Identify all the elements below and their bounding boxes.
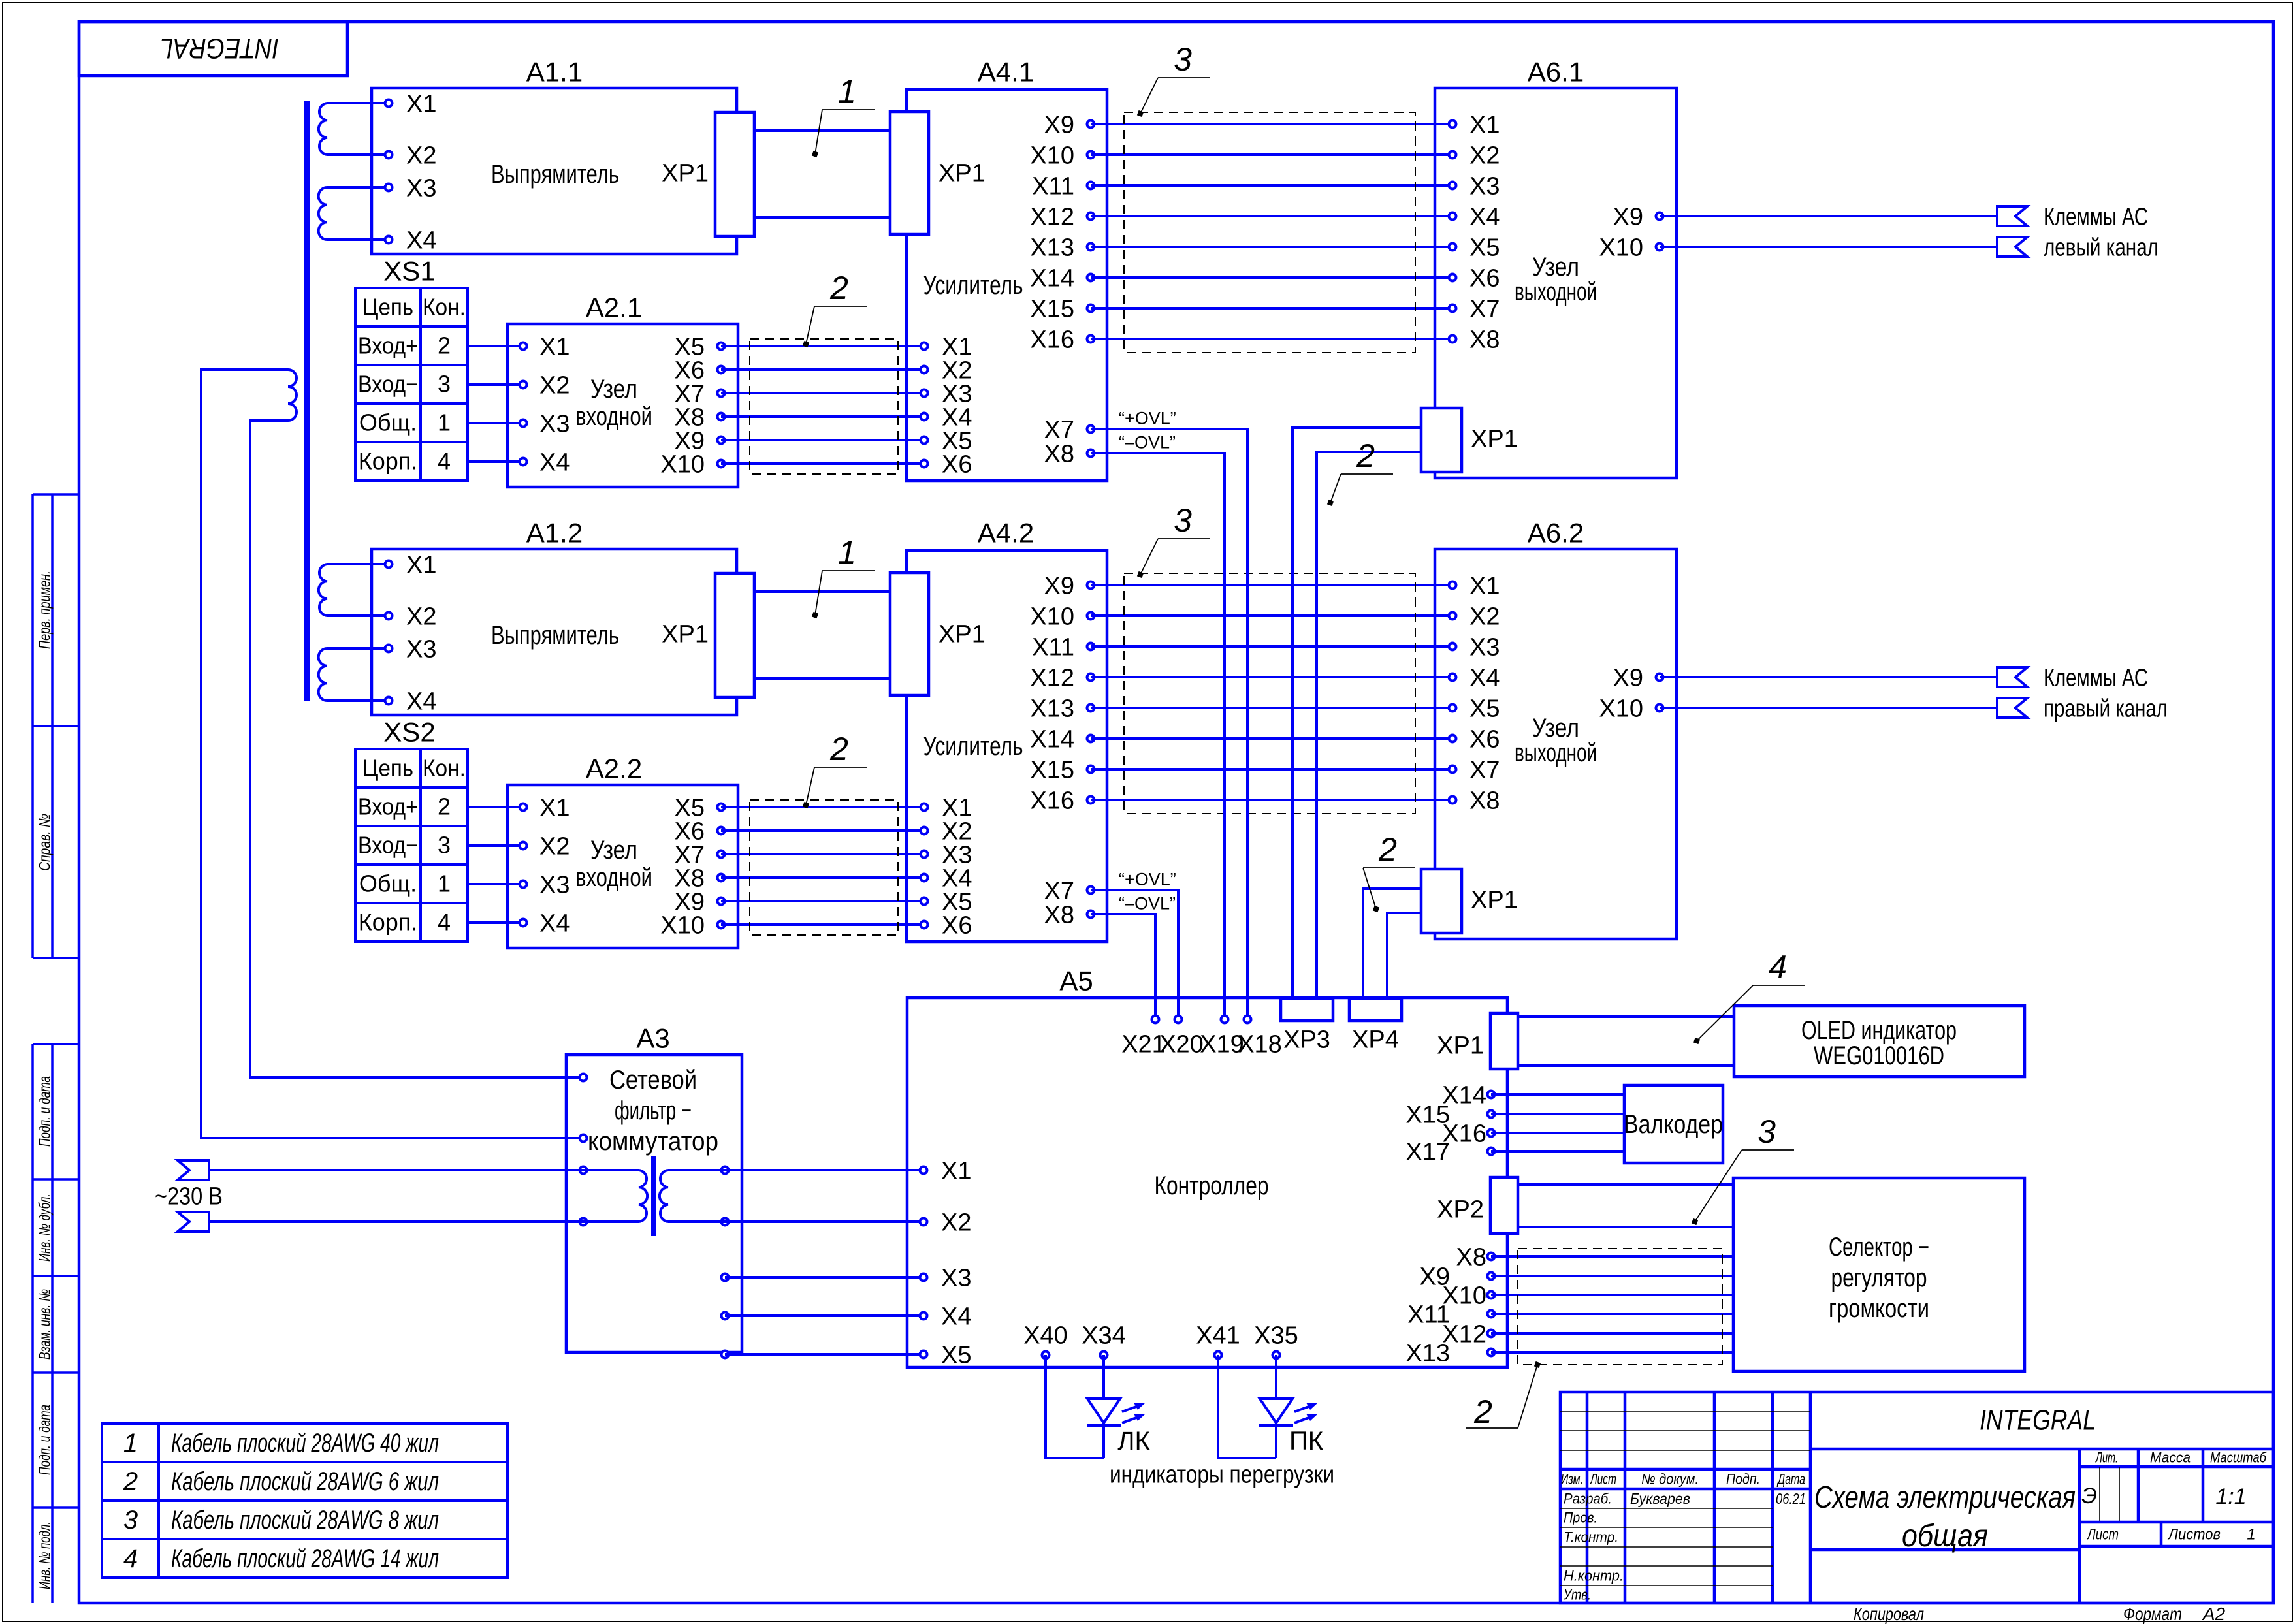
- pin X4 of A2.2: [520, 910, 570, 937]
- svg-text:индикаторы перегрузки: индикаторы перегрузки: [1110, 1461, 1334, 1488]
- wire: [327, 614, 389, 617]
- svg-text:X1: X1: [1469, 111, 1500, 138]
- pin X8 of A6.2: [1449, 787, 1500, 814]
- svg-text:2: 2: [1356, 438, 1375, 474]
- wire: [327, 563, 389, 565]
- wire A4.1 X7 (+OVL) to A5 X18: [1091, 429, 1247, 1019]
- wire XP1-XP1 top: [754, 590, 890, 593]
- wire A4 to A6: [1091, 307, 1452, 310]
- connector XP1 of A6.1: [1421, 408, 1518, 472]
- svg-text:Листов: Листов: [2167, 1525, 2221, 1543]
- callout 3 (channel 1): [1137, 41, 1210, 117]
- svg-text:A6.1: A6.1: [1528, 57, 1584, 88]
- svg-text:X5: X5: [1469, 695, 1500, 722]
- block A4.2 Усилитель: [907, 518, 1107, 942]
- title stamp box INTEGRAL (rotated 180): [79, 22, 347, 76]
- svg-text:A5: A5: [1059, 966, 1093, 996]
- wire A6 X9 to terminals: [1660, 215, 1997, 217]
- LED ПК overload indicator: [1218, 1355, 1318, 1458]
- svg-text:X4: X4: [406, 227, 436, 254]
- svg-text:A3: A3: [636, 1023, 669, 1054]
- svg-text:Клеммы АС: Клеммы АС: [2044, 203, 2148, 231]
- pin 2 of A3 (left): [580, 1135, 587, 1142]
- wire A4 to A6: [1091, 246, 1452, 248]
- connector XP1 of A5: [1437, 1013, 1518, 1069]
- svg-text:Усилитель: Усилитель: [923, 732, 1023, 761]
- svg-text:A4.1: A4.1: [978, 57, 1034, 88]
- svg-text:4: 4: [438, 909, 451, 936]
- wire XP1-XP1 bottom: [754, 216, 890, 219]
- svg-text:1: 1: [438, 870, 451, 897]
- wire A5 XP2 to selector (b): [1518, 1226, 1733, 1228]
- svg-text:XP1: XP1: [662, 159, 709, 187]
- svg-text:Подп. и дата: Подп. и дата: [36, 1076, 54, 1147]
- svg-text:XP1: XP1: [1471, 886, 1518, 914]
- wire A2 to A4: [721, 923, 924, 926]
- svg-text:X2: X2: [1469, 142, 1500, 169]
- svg-text:2: 2: [829, 731, 848, 767]
- svg-text:Схема электрическая: Схема электрическая: [1814, 1480, 2076, 1515]
- svg-text:Выпрямитель: Выпрямитель: [491, 621, 619, 650]
- svg-text:X15: X15: [1030, 295, 1074, 323]
- svg-text:X5: X5: [1469, 234, 1500, 261]
- svg-text:X3: X3: [406, 635, 436, 663]
- svg-text:X2: X2: [1469, 603, 1500, 630]
- pin X9 of A6.1: [1613, 203, 1663, 231]
- transformer TV1 primary winding: [288, 370, 297, 421]
- svg-text:Изм.: Изм.: [1561, 1471, 1583, 1488]
- pin 1 of A3 (left): [580, 1074, 587, 1081]
- wire A6.1 XP1 to A5 XP3 (a): [1292, 428, 1421, 998]
- title block Лист Листов: [2086, 1525, 2255, 1543]
- margin graph boxes upper (Перв. примен. / Справ. №): [33, 494, 79, 958]
- pin of A3 (right): [722, 1351, 729, 1358]
- wire primary bottom to A3 pin: [250, 421, 583, 1077]
- svg-text:X7: X7: [1044, 877, 1074, 904]
- svg-text:Формат: Формат: [2123, 1604, 2182, 1624]
- svg-text:Подп.: Подп.: [1726, 1471, 1760, 1488]
- svg-text:“–OVL”: “–OVL”: [1119, 433, 1176, 453]
- svg-text:Общ.: Общ.: [359, 409, 417, 436]
- svg-text:3: 3: [438, 371, 451, 398]
- connector XS1 table: [355, 256, 468, 481]
- block A5 Контроллер: [907, 966, 1507, 1367]
- svg-text:X1: X1: [539, 794, 570, 821]
- wire A2 to A4: [721, 900, 924, 902]
- svg-text:1: 1: [2247, 1525, 2255, 1543]
- wire A5 to encoder: [1491, 1150, 1624, 1153]
- svg-text:X3: X3: [539, 410, 570, 438]
- pin X1 of A2.1: [520, 333, 570, 360]
- svg-text:X2: X2: [941, 1209, 971, 1236]
- wire XS to A2: [468, 345, 523, 347]
- pin X7 of A4.2: [1044, 877, 1095, 904]
- svg-text:X11: X11: [1032, 633, 1074, 661]
- pin X12 of A5: [1442, 1320, 1494, 1348]
- svg-text:Разраб.: Разраб.: [1564, 1491, 1612, 1507]
- svg-text:X4: X4: [1469, 664, 1500, 692]
- pin X1 of A4.1: [921, 333, 972, 360]
- svg-text:Подп. и дата: Подп. и дата: [36, 1405, 54, 1475]
- pin X2 of A4.2: [921, 818, 972, 845]
- svg-text:Перв. примен.: Перв. примен.: [36, 571, 54, 649]
- svg-text:X13: X13: [1030, 234, 1074, 261]
- svg-text:XP4: XP4: [1352, 1026, 1399, 1053]
- svg-text:2: 2: [438, 332, 451, 359]
- pin X8 of A6.1: [1449, 326, 1500, 353]
- pin X14 of A4.1: [1030, 264, 1094, 292]
- svg-text:“+OVL”: “+OVL”: [1119, 870, 1176, 889]
- svg-text:X2: X2: [539, 833, 570, 860]
- svg-text:входной: входной: [575, 402, 652, 431]
- pin X11 of A4.1: [1032, 172, 1094, 200]
- pin X5 of A4.2: [921, 888, 972, 915]
- callout 1 (channel 2): [812, 534, 875, 618]
- pin X5 of A2.1: [675, 333, 725, 360]
- footer Формат А2: [2123, 1604, 2226, 1624]
- svg-text:2: 2: [1473, 1393, 1492, 1430]
- wire A4 to A6: [1091, 645, 1452, 648]
- svg-text:X1: X1: [406, 551, 436, 579]
- svg-text:X14: X14: [1030, 264, 1074, 292]
- svg-text:Инв. № дубл.: Инв. № дубл.: [36, 1194, 54, 1262]
- svg-text:громкости: громкости: [1829, 1294, 1929, 1323]
- svg-text:X1: X1: [539, 333, 570, 360]
- wire: [327, 699, 389, 702]
- title block Лит Масса Масштаб: [2081, 1450, 2267, 1509]
- wire primary top to A3 pin: [201, 370, 583, 1138]
- svg-text:Корп.: Корп.: [359, 909, 418, 936]
- wire A2 to A4: [721, 853, 924, 855]
- svg-text:X16: X16: [1030, 787, 1074, 814]
- wire A5 to encoder: [1491, 1093, 1624, 1096]
- pin X15 of A5: [1405, 1101, 1494, 1128]
- wire XS to A2: [468, 844, 523, 847]
- wire A5 to selector: [1491, 1332, 1733, 1335]
- pin X2 of A5: [920, 1209, 972, 1236]
- svg-text:X9: X9: [1044, 111, 1074, 138]
- transformer TV1 secondary winding 2b: [319, 648, 327, 701]
- svg-text:Инв. № подл.: Инв. № подл.: [36, 1521, 54, 1589]
- svg-text:X3: X3: [1469, 172, 1500, 200]
- callout 2 (channel 2): [803, 731, 867, 808]
- block A2.2 Узел входной: [507, 754, 738, 948]
- pin X2 of A2.2: [520, 833, 570, 860]
- svg-text:X13: X13: [1030, 695, 1074, 722]
- svg-text:X7: X7: [1044, 416, 1074, 443]
- svg-text:3: 3: [438, 832, 451, 859]
- pin X9 of A5: [1420, 1263, 1495, 1290]
- wire A4.1 X8 (-OVL) to A5 X19: [1091, 453, 1225, 1019]
- wire XS to A2: [468, 921, 523, 924]
- wire A4 to A6: [1091, 584, 1452, 586]
- pin X40 of A5: [1023, 1322, 1068, 1358]
- pin X12 of A4.1: [1030, 203, 1094, 231]
- pin X3 of A2.2: [520, 871, 570, 899]
- svg-text:XP2: XP2: [1437, 1196, 1484, 1223]
- pin X4 of A1.2: [385, 688, 437, 715]
- wire T2 primary bottom: [575, 1220, 639, 1223]
- pin X7 of A2.1: [675, 380, 725, 407]
- svg-text:№ докум.: № докум.: [1641, 1471, 1699, 1488]
- pin X10 of A6.2: [1599, 695, 1663, 722]
- pin X5 of A6.1: [1449, 234, 1500, 261]
- pin X19 of A5: [1200, 1016, 1244, 1059]
- wire XS to A2: [468, 460, 523, 463]
- pin X4 of A1.1: [385, 227, 437, 254]
- svg-text:X40: X40: [1023, 1322, 1068, 1349]
- transformer T2 core: [651, 1156, 656, 1236]
- wire A2 to A4: [721, 829, 924, 832]
- callout 1 (channel 1): [812, 73, 875, 157]
- block A1.2 Выпрямитель: [372, 518, 737, 715]
- pin X7 of A6.1: [1449, 295, 1500, 323]
- block A3 Сетевой фильтр - коммутатор: [566, 1023, 742, 1352]
- svg-text:WEG010016D: WEG010016D: [1814, 1042, 1944, 1070]
- cable 3 dashed outline (channel 2): [1124, 573, 1415, 814]
- svg-text:Дата: Дата: [1776, 1471, 1805, 1488]
- svg-text:Лист: Лист: [1590, 1471, 1616, 1488]
- svg-text:Копировал: Копировал: [1854, 1604, 1924, 1624]
- svg-text:X10: X10: [1599, 234, 1643, 261]
- svg-text:X4: X4: [539, 449, 570, 476]
- svg-text:X6: X6: [1469, 264, 1500, 292]
- svg-text:Масштаб: Масштаб: [2210, 1450, 2267, 1466]
- svg-text:Утв.: Утв.: [1563, 1587, 1591, 1603]
- svg-text:2: 2: [123, 1467, 138, 1496]
- svg-text:X7: X7: [1469, 756, 1500, 784]
- svg-text:Вход+: Вход+: [358, 793, 418, 820]
- connector XP3 of A5: [1281, 998, 1333, 1053]
- pin 3 of A3 (left): [580, 1167, 587, 1174]
- svg-text:Взам. инв. №: Взам. инв. №: [36, 1289, 54, 1360]
- svg-text:X8: X8: [1044, 440, 1074, 468]
- svg-text:Лит.: Лит.: [2095, 1450, 2118, 1466]
- pin X16 of A4.1: [1030, 326, 1094, 353]
- wire A2 to A4: [721, 368, 924, 371]
- pin X20 of A5: [1159, 1016, 1204, 1059]
- connector XP2 of A5: [1437, 1177, 1518, 1234]
- pin X3 of A6.2: [1449, 633, 1500, 661]
- pin X41 of A5: [1196, 1322, 1240, 1358]
- wire 230V neutral to A3: [209, 1220, 583, 1223]
- wire A6.2 XP1 to A5 XP4 (a): [1363, 889, 1421, 998]
- cable 3 dashed outline (channel 1): [1124, 112, 1415, 353]
- svg-text:Цепь: Цепь: [362, 294, 413, 321]
- pin X9 of A4.1: [1044, 111, 1095, 138]
- svg-text:X20: X20: [1159, 1030, 1204, 1058]
- svg-text:X10: X10: [1599, 695, 1643, 722]
- svg-text:A1.2: A1.2: [526, 518, 583, 549]
- power input connector ~230V (upper): [178, 1160, 209, 1180]
- svg-text:“+OVL”: “+OVL”: [1119, 409, 1176, 428]
- pin X5 of A4.1: [921, 427, 972, 454]
- pin X1 of A5: [920, 1157, 972, 1185]
- svg-text:входной: входной: [575, 863, 652, 892]
- svg-text:XP1: XP1: [939, 620, 986, 648]
- wire A5 XP1 to OLED (a): [1518, 1015, 1734, 1018]
- connector XP1 of A1.1: [662, 112, 754, 236]
- pin X10 of A4.1: [1030, 142, 1094, 169]
- svg-text:X6: X6: [942, 912, 972, 939]
- pin X18 of A5: [1238, 1016, 1282, 1059]
- svg-text:фильтр −: фильтр −: [615, 1096, 692, 1125]
- svg-text:Сетевой: Сетевой: [609, 1066, 697, 1094]
- pin X15 of A4.2: [1030, 756, 1094, 784]
- pin X3 of A1.1: [385, 174, 437, 202]
- pin X8 of A5: [1456, 1243, 1495, 1271]
- svg-text:X3: X3: [406, 174, 436, 202]
- svg-text:Селектор −: Селектор −: [1829, 1233, 1929, 1262]
- pin X2 of A4.1: [921, 357, 972, 384]
- wire A6 X10 to terminals: [1660, 707, 1997, 709]
- svg-text:Выпрямитель: Выпрямитель: [491, 160, 619, 189]
- pin X14 of A5: [1442, 1081, 1494, 1109]
- LED ЛК overload indicator: [1046, 1355, 1146, 1458]
- svg-text:правый канал: правый канал: [2044, 695, 2168, 722]
- transformer T2 in A3: secondary coil: [660, 1170, 668, 1222]
- pin X1 of A6.2: [1449, 572, 1500, 599]
- transformer T2 in A3: primary coil: [639, 1170, 647, 1222]
- pin X1 of A1.2: [385, 551, 437, 579]
- pin X4 of A4.2: [921, 865, 972, 892]
- svg-text:3: 3: [1757, 1113, 1776, 1150]
- wire A2 to A4: [721, 392, 924, 394]
- terminal Клеммы АС (female connector): [1997, 667, 2027, 687]
- wire XS to A2: [468, 383, 523, 386]
- svg-text:X16: X16: [1030, 326, 1074, 353]
- wire A6 X10 to terminals: [1660, 246, 1997, 248]
- svg-text:1: 1: [438, 409, 451, 436]
- wire A4 to A6: [1091, 153, 1452, 156]
- wire: [327, 647, 389, 650]
- svg-text:XS2: XS2: [383, 717, 435, 748]
- svg-text:XP3: XP3: [1283, 1026, 1330, 1053]
- callout 3 at XP2 cable: [1692, 1113, 1794, 1225]
- wire A5 to encoder: [1491, 1132, 1624, 1134]
- connector XP4 of A5: [1349, 998, 1402, 1053]
- connector XS2 table: [355, 717, 468, 942]
- pin X8 of A2.1: [675, 404, 725, 431]
- svg-text:X17: X17: [1405, 1138, 1450, 1166]
- svg-text:Кабель плоский 28AWG 40 жил: Кабель плоский 28AWG 40 жил: [171, 1429, 439, 1457]
- svg-text:Кон.: Кон.: [423, 755, 466, 782]
- block A6.1 Узел выходной: [1435, 57, 1677, 478]
- svg-text:“–OVL”: “–OVL”: [1119, 894, 1176, 914]
- wire A3 to A5 X3: [725, 1276, 923, 1279]
- svg-text:Э: Э: [2081, 1484, 2097, 1508]
- pin X3 of A2.1: [520, 410, 570, 438]
- svg-text:1:1: 1:1: [2215, 1484, 2246, 1509]
- pin X6 of A2.2: [675, 818, 725, 845]
- power input connector ~230V (lower): [178, 1212, 209, 1232]
- svg-text:X3: X3: [941, 1264, 971, 1292]
- svg-text:Контроллер: Контроллер: [1155, 1171, 1269, 1200]
- svg-text:Узел: Узел: [590, 836, 637, 865]
- svg-text:X8: X8: [1044, 901, 1074, 929]
- svg-text:Усилитель: Усилитель: [923, 271, 1023, 300]
- svg-text:X2: X2: [406, 603, 436, 630]
- connector XP1 of A6.2: [1421, 869, 1518, 933]
- svg-text:X10: X10: [1030, 603, 1074, 630]
- svg-text:X2: X2: [539, 372, 570, 399]
- svg-text:XP1: XP1: [1437, 1032, 1484, 1059]
- pin X34 of A5: [1082, 1322, 1126, 1358]
- svg-text:Кабель плоский 28AWG 8 жил: Кабель плоский 28AWG 8 жил: [171, 1506, 439, 1535]
- wire A5 to selector: [1491, 1275, 1733, 1277]
- svg-text:1: 1: [838, 73, 856, 110]
- svg-text:Вход+: Вход+: [358, 332, 418, 359]
- svg-text:X10: X10: [660, 912, 705, 939]
- pin X5 of A5: [920, 1341, 972, 1369]
- svg-text:X3: X3: [539, 871, 570, 899]
- pin X7 of A2.2: [675, 841, 725, 868]
- svg-text:2: 2: [1378, 831, 1397, 868]
- block A6.2 Узел выходной: [1435, 518, 1677, 939]
- wire: [327, 153, 389, 156]
- svg-text:X11: X11: [1032, 172, 1074, 200]
- pin 4 of A3 (left): [580, 1218, 587, 1226]
- svg-text:3: 3: [1174, 41, 1192, 78]
- svg-text:ЛК: ЛК: [1117, 1427, 1150, 1456]
- pin X10 of A5: [1442, 1282, 1494, 1309]
- svg-text:общая: общая: [1902, 1519, 1988, 1553]
- wire A4 to A6: [1091, 123, 1452, 125]
- block A4.1 Усилитель: [907, 57, 1107, 481]
- pin X6 of A2.1: [675, 357, 725, 384]
- pin X17 of A5: [1405, 1138, 1494, 1166]
- callout 2 (channel 1): [803, 270, 867, 347]
- callout 2 at A6.1 XP1 cable: [1327, 438, 1393, 506]
- wire A4 to A6: [1091, 215, 1452, 217]
- block Валкодер: [1624, 1085, 1723, 1163]
- pin X9 of A2.1: [675, 427, 725, 454]
- pin of A3 (right): [722, 1218, 729, 1226]
- pin X2 of A1.1: [385, 142, 437, 169]
- pin X2 of A1.2: [385, 603, 437, 630]
- wire XS to A2: [468, 422, 523, 424]
- svg-text:X18: X18: [1238, 1030, 1282, 1058]
- wire: [327, 238, 389, 241]
- transformer TV1 secondary winding 2a: [319, 564, 327, 616]
- pin X16 of A5: [1442, 1120, 1494, 1147]
- svg-text:X8: X8: [1469, 326, 1500, 353]
- block Селектор - регулятор громкости: [1733, 1178, 2025, 1371]
- svg-text:Узел: Узел: [590, 375, 637, 404]
- pin X2 of A2.1: [520, 372, 570, 399]
- transformer TV1 secondary winding 1a: [319, 103, 327, 155]
- svg-text:X41: X41: [1196, 1322, 1240, 1349]
- svg-text:Справ. №: Справ. №: [36, 814, 54, 871]
- wire T2 secondary top to A5 X1: [668, 1169, 923, 1171]
- pin X16 of A4.2: [1030, 787, 1094, 814]
- wire A6.1 XP1 to A5 XP3 (b): [1317, 452, 1421, 998]
- svg-text:Кон.: Кон.: [423, 294, 466, 321]
- svg-text:A2.2: A2.2: [586, 754, 642, 784]
- wire A5 XP1 to OLED (b): [1518, 1064, 1734, 1067]
- svg-text:X4: X4: [1469, 203, 1500, 231]
- svg-text:X6: X6: [942, 451, 972, 478]
- svg-text:4: 4: [123, 1544, 138, 1573]
- svg-text:выходной: выходной: [1515, 739, 1597, 767]
- wire A5 XP2 to selector (a): [1518, 1183, 1733, 1186]
- pin X11 of A5: [1407, 1301, 1494, 1328]
- wire A2 to A4: [721, 806, 924, 808]
- pin X4 of A6.2: [1449, 664, 1500, 692]
- pin X8 of A4.1: [1044, 440, 1095, 468]
- callout 4 at OLED cable: [1693, 949, 1805, 1044]
- pin X9 of A4.2: [1044, 572, 1095, 599]
